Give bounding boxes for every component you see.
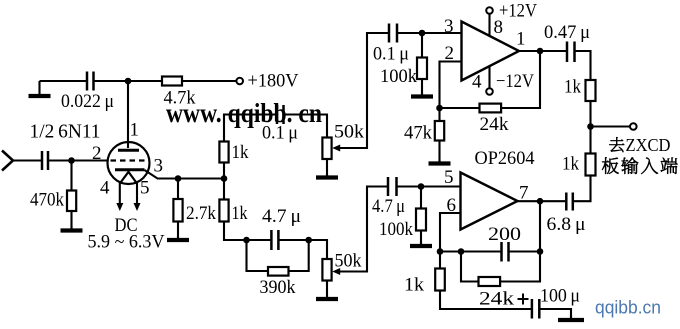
svg-text:1/2 6N11: 1/2 6N11 (30, 121, 101, 143)
svg-text:4.7 μ: 4.7 μ (262, 206, 301, 227)
node 4.7u left (243, 237, 250, 244)
svg-text:3: 3 (444, 16, 454, 37)
op-amp U1 (OP2604 a) (462, 22, 520, 81)
label ban-shu-ru-duan (602, 157, 619, 173)
capacitor C 0.022u (86, 72, 89, 91)
svg-text:0.1 μ: 0.1 μ (373, 44, 409, 65)
svg-text:24k: 24k (479, 289, 515, 310)
capacitor 0.1u plate (276, 105, 279, 124)
ground (2.7k) (177, 236, 179, 240)
wire (575, 51, 591, 80)
wire (40, 80, 87, 82)
resistor 1k op2 (435, 269, 445, 291)
wire (591, 125, 631, 127)
svg-text:100k: 100k (379, 219, 413, 240)
svg-text:4: 4 (100, 178, 110, 199)
svg-text:50k: 50k (335, 251, 362, 272)
svg-text:100k: 100k (380, 66, 417, 87)
wire (440, 291, 532, 310)
wire (224, 115, 277, 142)
wire output (519, 50, 567, 52)
tube envelope 1/2 6N11 (108, 142, 150, 184)
wire (182, 80, 236, 82)
svg-text:1: 1 (516, 29, 526, 50)
resistor 100k op2 (416, 209, 426, 231)
potentiometer 50k upper (322, 138, 331, 160)
wire (438, 108, 440, 121)
tube heater (120, 172, 137, 184)
wire (421, 33, 423, 58)
svg-text:200: 200 (488, 224, 521, 245)
ground (100k op2) (420, 242, 422, 246)
wire (326, 159, 328, 177)
wire (397, 32, 462, 34)
wire 24k loop (461, 252, 479, 282)
svg-text:−12V: −12V (496, 71, 534, 92)
wire (224, 222, 247, 241)
input arrow (2, 151, 13, 171)
wire (177, 179, 179, 200)
svg-text:+12V: +12V (499, 1, 537, 22)
capacitor input coupling (41, 151, 44, 170)
resistor 100k op1 (417, 58, 427, 80)
wire feedback (501, 51, 540, 108)
wire (70, 211, 72, 229)
svg-text:1k: 1k (562, 154, 579, 175)
label qu ZXCD (609, 137, 624, 152)
svg-text:1k: 1k (232, 142, 249, 163)
resistor 24k op1 (480, 104, 502, 113)
wire (420, 231, 422, 246)
svg-text:OP2604: OP2604 (475, 148, 535, 169)
wire (223, 179, 225, 200)
pot1 wiper arrow (332, 145, 340, 152)
terminal +12V (486, 7, 493, 14)
potentiometer 50k lower (322, 259, 331, 281)
ground (47k) (438, 160, 440, 164)
wire cathode out (145, 170, 225, 179)
label polarity + (518, 298, 529, 300)
svg-text:3: 3 (154, 156, 164, 177)
wire (70, 161, 72, 191)
pin 4 lead (119, 183, 121, 204)
resistor 47k (435, 121, 444, 141)
svg-text:5: 5 (444, 167, 454, 188)
node output tap (587, 123, 594, 130)
svg-text:ZXCD: ZXCD (626, 135, 671, 155)
resistor 1k upper (219, 142, 228, 163)
tube grid (dashed) (111, 159, 148, 161)
wire pin2 (440, 62, 462, 109)
svg-text:2.7k: 2.7k (186, 203, 216, 224)
pin 5 arrow (134, 203, 141, 211)
tube anode plate bar (118, 149, 139, 152)
resistor 1k out2 (586, 154, 596, 176)
svg-text:24k: 24k (480, 114, 510, 135)
ground (pot2) (326, 295, 328, 299)
node op2 in+ (418, 183, 425, 190)
wire (539, 309, 571, 318)
resistor 4.7k (162, 77, 182, 86)
node cathode/1k (221, 175, 228, 182)
svg-text:390k: 390k (260, 277, 296, 298)
pin 8 lead (488, 14, 490, 36)
wire (589, 101, 591, 154)
capacitor 0.1u op1 (388, 24, 391, 43)
wire (13, 159, 42, 161)
wire (573, 176, 591, 202)
node fb left (437, 248, 444, 255)
wire (94, 80, 163, 82)
svg-text:5: 5 (140, 178, 150, 199)
wire 390k loop left (247, 240, 269, 271)
wire (278, 239, 308, 241)
wire (421, 79, 423, 95)
terminal +180V (236, 78, 243, 85)
resistor 24k op2 (479, 277, 501, 286)
node cathode/2.7k (175, 175, 182, 182)
wire (440, 250, 501, 252)
svg-text:4: 4 (472, 72, 482, 93)
op-amp U2 (OP2604 b) (461, 173, 518, 230)
resistor 2.7k (173, 199, 182, 222)
ground (470k) (70, 226, 72, 231)
node fb right (537, 248, 544, 255)
resistor 1k out1 (586, 80, 596, 101)
capacitor 0.47u (566, 42, 569, 63)
resistor 1k lower (219, 200, 228, 222)
capacitor 200 (500, 242, 503, 262)
wire (48, 159, 108, 161)
wire (177, 222, 179, 240)
node grid/470k (68, 157, 75, 164)
wire (440, 107, 480, 109)
svg-text:0.47 μ: 0.47 μ (544, 22, 590, 43)
wire (284, 115, 328, 138)
ground (100k op1) (421, 93, 423, 97)
node op1 fb (436, 105, 443, 112)
wire plate lead (127, 81, 129, 148)
wire (420, 187, 422, 209)
svg-text:4.7 μ: 4.7 μ (372, 196, 405, 217)
capacitor 100u (531, 299, 534, 319)
wire pin6 (440, 213, 461, 252)
svg-text:qqibb.cn: qqibb.cn (595, 297, 661, 318)
node op1 in+ (419, 30, 426, 37)
wire pot1 wiper (340, 33, 389, 148)
pin 4 lead (488, 66, 490, 89)
svg-text:470k: 470k (30, 190, 64, 211)
node op2 out (537, 198, 544, 205)
svg-text:1: 1 (130, 120, 140, 141)
svg-text:47k: 47k (404, 123, 432, 144)
terminal to ZXCD (630, 123, 637, 130)
wire output op2 (518, 200, 541, 202)
svg-text:+180V: +180V (248, 71, 299, 92)
wire (540, 200, 566, 202)
capacitor 6.8u (565, 193, 568, 211)
svg-text:5.9 ~ 6.3V: 5.9 ~ 6.3V (88, 232, 165, 253)
wire (397, 185, 461, 187)
wire (539, 201, 541, 251)
terminal -12V (486, 88, 493, 95)
node 4.7u right (305, 237, 312, 244)
resistor 470k (67, 191, 76, 212)
pin 4 arrow (116, 203, 123, 211)
svg-text:0.022 μ: 0.022 μ (61, 91, 114, 112)
node fb mid (458, 248, 465, 255)
wire (247, 239, 272, 241)
wire 390k loop right (289, 240, 309, 271)
wire (438, 141, 440, 163)
wire (509, 250, 541, 252)
wire (500, 252, 540, 282)
wire pot2 wiper (340, 187, 388, 272)
ground (100u) (570, 315, 572, 320)
ground (0.022u cap) (38, 81, 40, 96)
wire (223, 163, 225, 179)
ground (pot1) (326, 174, 328, 178)
capacitor 4.7u op2 (387, 177, 390, 196)
resistor 390k (268, 267, 289, 276)
tube cathode bar (115, 168, 145, 171)
node op1 out (537, 48, 544, 55)
svg-text:1k: 1k (232, 203, 248, 224)
wire (326, 281, 328, 299)
wire to pot2 (309, 240, 327, 259)
node plate/HT junction (125, 78, 132, 85)
capacitor 4.7u cathode (270, 230, 273, 250)
svg-text:50k: 50k (334, 122, 365, 143)
svg-text:www. qqibb. cn: www. qqibb. cn (166, 97, 322, 128)
svg-text:6.8 μ: 6.8 μ (547, 214, 586, 235)
svg-text:100 μ: 100 μ (540, 286, 580, 307)
svg-text:1k: 1k (564, 77, 581, 98)
pot2 wiper arrow (332, 268, 340, 275)
pin 5 lead (136, 183, 138, 204)
wire (439, 252, 441, 269)
svg-text:1k: 1k (404, 275, 425, 296)
